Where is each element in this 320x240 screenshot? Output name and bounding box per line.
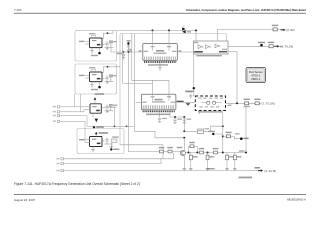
svg-text:(3, TX_EN): (3, TX_EN): [262, 101, 275, 105]
junction node: [126, 125, 128, 127]
wire: regA output step-up to rail: [102, 30, 113, 38]
test point TP0943: [208, 131, 223, 136]
svg-text:6816532H01-A: 6816532H01-A: [287, 198, 306, 202]
shield note text: [239, 177, 253, 179]
svg-text:(3, 9V): (3, 9V): [286, 28, 294, 32]
svg-text:(3, 14, B): (3, 14, B): [264, 169, 276, 173]
wire: connector 1 to U0921 pin 1: [60, 106, 90, 108]
note box: Flat Series 4700-1 6800-1: [246, 67, 266, 82]
synthesizer IC U0951: [141, 94, 176, 115]
junction node: [107, 66, 109, 68]
ground (C0947): [206, 169, 210, 171]
wire: branch y136 to connector: [223, 136, 246, 138]
resistor R0938 on osc output: [254, 99, 260, 105]
ground (C0948): [233, 169, 237, 171]
ground under U0931: [158, 68, 162, 70]
transistor Q0941: [177, 147, 186, 156]
wire: module B drop 2: [80, 94, 82, 112]
long bus wire FREF: [64, 170, 259, 172]
voltage regulator U0941: [79, 132, 108, 152]
wire: regB output step-up to rail: [102, 67, 120, 73]
wire: left input of U0951: [136, 101, 142, 103]
shunt capacitor C0948: [233, 153, 241, 169]
wire: connector 3 to lower rail: [60, 116, 135, 127]
capacitor C0942: [183, 117, 192, 123]
decoupling under U0951: wire y117: [170, 113, 184, 118]
shunt resistor R0952: [226, 153, 234, 169]
test point TP0942: [258, 42, 265, 47]
wire: reg3 output down to rail: [101, 108, 114, 127]
module shield outline A (5V regulator section): [75, 30, 117, 61]
wire: connector 4: [60, 120, 85, 122]
module shield outline D (reg 4 section): [77, 129, 124, 154]
wire: vertical x184 down to bias row: [183, 117, 185, 131]
wire: vertical bus x128.4: [128, 42, 166, 152]
wire: bus x120 bottom route: [120, 145, 163, 159]
junction node on top rail: [168, 29, 170, 31]
capacitor C0933 at U0931 input: [117, 52, 125, 59]
junction node: [174, 116, 176, 118]
junction node: [236, 102, 238, 104]
capacitor C0943: [105, 138, 114, 145]
ground (emitter): [183, 169, 187, 171]
resistor R0935 on 9V rail: [272, 25, 278, 31]
capacitor C0902 (polarized): [105, 41, 117, 50]
wire: 9.3V supply drop x246: [245, 105, 247, 153]
test point TP0931 on bus x128.4: [127, 40, 132, 52]
capacitor C0921: [105, 105, 108, 111]
wire: U0931 bottom to ground: [159, 63, 161, 68]
wire: buffer lower right pin down the right side: [228, 52, 237, 104]
junction node: [183, 116, 185, 118]
svg-text:Figure 7-141. HUF4017A Freque: Figure 7-141. HUF4017A Frequency Generat…: [14, 182, 140, 186]
wire: left input of U0931: [111, 48, 143, 53]
junction node: [196, 152, 198, 154]
junction node: [107, 32, 109, 34]
junction node: [114, 125, 116, 127]
wire: oscillator output line: [226, 102, 262, 104]
shunt capacitor C0947: [206, 153, 214, 169]
junction node: [183, 137, 185, 139]
wire: base feed with resistor R0946: [166, 147, 182, 153]
wire: connector 2 to U0921 pin 2: [60, 109, 90, 112]
capacitor C0912 (polarized): [105, 75, 117, 84]
capacitor C0901: [105, 41, 108, 48]
test point TP0941: [186, 87, 195, 92]
junction node: [245, 152, 247, 154]
wire: U0951 top entries: [153, 80, 170, 94]
resistor R0937 on osc output: [244, 99, 250, 108]
wire: top rail from module A to buffer: [117, 29, 196, 31]
wire: vertical bus x134.6: [134, 34, 136, 127]
junction node: [188, 152, 190, 154]
footer rule: [14, 193, 306, 195]
wire: rail into buffer top pin: [195, 30, 197, 41]
voltage regulator U0921: [86, 93, 105, 128]
wire: oscillator bottom stub: [199, 111, 201, 115]
resistor R0944: [110, 136, 120, 150]
filter FL0941 on y131 row: [198, 128, 210, 133]
reference oscillator Y0931 (dashed shield): [195, 96, 231, 113]
wire: emitter to ground: [183, 155, 185, 168]
voltage regulator U0901: [79, 33, 105, 56]
capacitor C0956 right of U0951: [185, 91, 194, 99]
junction node: [195, 29, 197, 31]
off-sheet arrow (3, 9V): [281, 28, 295, 32]
junction node: [207, 152, 209, 154]
shield outline around synthesizer section: [120, 34, 227, 145]
wire: module B drop 1: [74, 94, 76, 107]
junction node: [222, 135, 224, 137]
junction node: [222, 152, 224, 154]
wire: buffer top right pin to 9V rail: [218, 30, 284, 42]
wire: route from rail y126 to collector column: [135, 126, 185, 138]
junction node: [183, 130, 185, 132]
svg-text:(3, TX_IN): (3, TX_IN): [280, 45, 293, 49]
ground at oscillator: [186, 103, 190, 106]
capacitor C0941: [173, 117, 182, 123]
junction node: [123, 51, 125, 53]
voltage regulator U0911: [79, 67, 105, 90]
wire: horizontal feed y83: [123, 82, 153, 84]
resistor R0936 on TX line: [268, 42, 274, 48]
wire: U0931 output to buffer: [177, 51, 193, 53]
ground (R0950): [189, 169, 193, 171]
wire: buffer output to TX line: [228, 45, 283, 47]
bias feedback loop: [189, 142, 198, 153]
long bus wire 1: [64, 153, 174, 159]
net label near supply column: [239, 150, 245, 151]
resistor R0945 on base feed: [159, 147, 165, 153]
resistor R0951 on y136 branch: [226, 132, 232, 138]
svg-text:August 24, 2007: August 24, 2007: [14, 198, 35, 202]
wire: output row y152.5: [186, 152, 247, 154]
wire: vertical bus x131.8: [122, 34, 124, 84]
buffer module U0961 (thermally stabilized xtal osc buffers): [193, 41, 228, 56]
ground (R0952): [225, 169, 229, 171]
capacitor C0911: [105, 75, 108, 82]
connector pins J2 (left edge, bottom group): [56, 158, 63, 172]
wire: collector drop: [183, 138, 185, 151]
svg-text:7-100: 7-100: [14, 8, 22, 12]
FREF off-sheet arrow (3, 14, B): [255, 167, 276, 173]
wire: horizontal feed y80: [132, 34, 169, 81]
wire: right output of U0951 with pin labels: [177, 101, 184, 103]
module shield outline B (3.3V regulator section): [75, 64, 117, 94]
net label on FREF bus: [207, 168, 215, 169]
wire: tall vertical from oscillator to amp row: [222, 111, 224, 153]
capacitor C0922 (polarized): [105, 104, 118, 113]
shunt resistor R0950: [189, 153, 197, 169]
wire: branch to U0941 inputs: [85, 121, 90, 142]
connector pins J1 (left edge, middle group): [53, 106, 60, 123]
synthesizer IC U0931: [139, 44, 182, 66]
wire: y131 row to tall vertical: [184, 126, 223, 131]
junction node: [222, 125, 224, 127]
resistor R0948 on output row: [199, 148, 205, 154]
junction node: [127, 51, 129, 53]
long bus wire 2: [64, 159, 162, 164]
header rule: [14, 12, 306, 14]
supply junction dot: [235, 133, 249, 140]
wire: U0931 top entries: [153, 30, 170, 44]
off-sheet arrow (3, TX_IN): [274, 45, 293, 49]
junction node on top rail: [152, 29, 154, 31]
svg-text:6800-1: 6800-1: [251, 77, 260, 81]
svg-text:Schematics, Component Location: Schematics, Component Location Diagrams,…: [186, 8, 306, 12]
resistor R0949 on output row: [213, 148, 219, 154]
wire: buffer bottom left pin down to oscillator: [193, 54, 195, 96]
wire: oscillator left pin to ground: [184, 101, 196, 104]
dual diode VR0931 on top rail: [182, 26, 191, 34]
